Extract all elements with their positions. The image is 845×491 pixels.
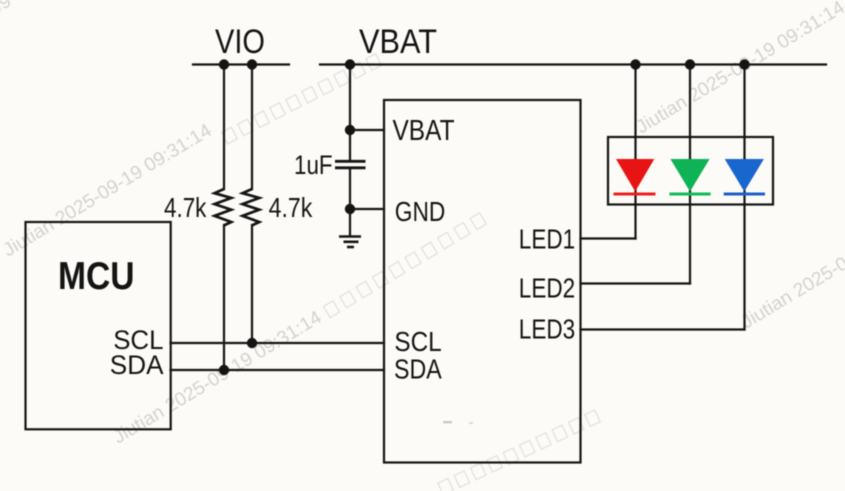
watermark line W1 xyxy=(0,120,216,261)
svg-text:MCU: MCU xyxy=(58,255,135,298)
node VBAT-LED1 xyxy=(630,59,640,69)
node GND pin xyxy=(345,204,355,214)
wire GND node to ground xyxy=(349,209,351,236)
wire cap to GND node xyxy=(349,169,351,209)
wire LED3 vertical from rail xyxy=(743,65,745,160)
LED D3 blue xyxy=(725,159,764,192)
svg-text:4.7k: 4.7k xyxy=(164,192,207,223)
LED D1 red xyxy=(616,159,654,192)
svg-text:VBAT: VBAT xyxy=(359,23,437,61)
wire R1 bottom to SDA xyxy=(223,225,225,370)
wire LED1 cathode down xyxy=(634,159,636,239)
svg-text:SDA: SDA xyxy=(394,354,442,385)
wire LED2 horizontal xyxy=(581,282,691,284)
svg-text:VBAT: VBAT xyxy=(393,115,455,147)
ground xyxy=(339,237,361,248)
svg-text:LED3: LED3 xyxy=(519,314,575,345)
wire LED2 cathode down xyxy=(689,159,691,284)
LED D3 cathode bar xyxy=(724,193,765,196)
node VBAT pin xyxy=(345,125,355,135)
svg-text:VIO: VIO xyxy=(215,23,265,61)
MCU box xyxy=(26,222,171,429)
svg-text:LED1: LED1 xyxy=(519,223,575,254)
wire R1 top xyxy=(223,65,225,190)
VIO rail xyxy=(193,63,289,65)
svg-text:4.7k: 4.7k xyxy=(269,192,313,223)
wire VBAT pin xyxy=(350,129,384,131)
node VBAT-LED2 xyxy=(685,59,695,69)
LED D2 cathode bar xyxy=(669,193,710,196)
wire LED1 vertical from rail xyxy=(634,65,636,160)
wire LED3 cathode down xyxy=(743,159,745,330)
wire VBAT drop to cap xyxy=(349,65,351,161)
node SCL-R2 xyxy=(247,338,257,348)
wire GND pin xyxy=(350,208,384,210)
wire LED2 vertical from rail xyxy=(689,65,691,160)
wire R2 bottom to SCL xyxy=(251,225,253,343)
wire LED3 horizontal xyxy=(581,328,745,330)
faint smudges xyxy=(443,421,452,423)
resistor R1 4.7k xyxy=(215,189,232,225)
wire SCL MCU to IC xyxy=(171,342,385,344)
node VBAT-cap xyxy=(345,59,355,69)
LED D2 green xyxy=(670,159,709,192)
IC U1 box xyxy=(384,100,581,463)
node SDA-R1 xyxy=(219,365,229,375)
svg-text:GND: GND xyxy=(395,196,446,227)
watermark line W3 xyxy=(633,0,845,138)
node VIO-R1 xyxy=(219,59,229,69)
LED module box xyxy=(608,137,773,205)
svg-text:LED2: LED2 xyxy=(519,273,575,304)
svg-text:SCL: SCL xyxy=(394,326,441,357)
capacitor C1 1uF plates xyxy=(335,161,366,168)
watermark line W0 (top-left corner fragment) xyxy=(0,0,108,76)
node VBAT-LED3 xyxy=(739,59,749,69)
wire R2 top xyxy=(251,65,253,190)
watermark line W5 (bottom CJK tail) xyxy=(438,410,600,491)
node VIO-R2 xyxy=(247,59,257,69)
svg-text:1uF: 1uF xyxy=(294,150,333,180)
wire LED1 horizontal xyxy=(581,237,636,239)
wire SDA MCU to IC xyxy=(171,369,385,371)
svg-text:SDA: SDA xyxy=(110,350,164,380)
resistor R2 4.7k xyxy=(243,189,260,225)
watermark line W4 xyxy=(738,192,845,333)
VBAT rail xyxy=(320,63,826,65)
watermark line W2 xyxy=(110,209,489,448)
LED D1 cathode bar xyxy=(614,193,656,196)
